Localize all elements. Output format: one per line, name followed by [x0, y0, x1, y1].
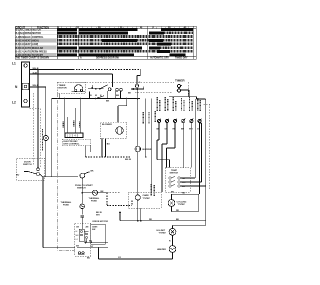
timer motor dashed box: [58, 82, 86, 93]
svg-text:HEATER: HEATER: [157, 248, 166, 251]
timer cam contact row: [88, 85, 122, 91]
junction dots motor wires: [91, 242, 100, 249]
chart dithered row4: [58, 39, 102, 42]
svg-text:BU: BU: [181, 129, 185, 131]
svg-text:BK: BK: [91, 171, 95, 173]
svg-text:WH: WH: [182, 182, 186, 184]
buzzer wires: [126, 99, 138, 195]
motor wire labels: [87, 241, 122, 260]
svg-text:AUTO REGULAR: AUTO REGULAR: [25, 47, 44, 50]
svg-text:DRY CONTROL: DRY CONTROL: [64, 144, 81, 146]
svg-text:WH: WH: [96, 215, 100, 217]
label CARE T'STAT: [143, 194, 151, 200]
label TEMP SWITCH: [170, 170, 179, 175]
label THERMAL FUSE (left): [61, 201, 72, 207]
thermal fuse (motor): [80, 204, 85, 209]
motor centrifugal switch bottom: [78, 252, 85, 255]
door switch contacts: [24, 168, 39, 176]
care t'stat symbol: [135, 195, 140, 200]
chassis dash-dot boundary: [58, 94, 75, 251]
chart dithered row7: [58, 50, 193, 53]
svg-text:FUSE: FUSE: [63, 205, 69, 207]
blower motor dashed box: [100, 122, 126, 138]
label ULTRA CARE (vertical): [151, 184, 154, 196]
label TIMER MOTOR: [59, 85, 68, 90]
wires below control board: [85, 146, 126, 158]
chart bottom note row: [16, 57, 188, 60]
svg-text:BK: BK: [106, 100, 110, 102]
cycle selector drop wires: [157, 99, 206, 194]
svg-text:BU: BU: [16, 175, 20, 177]
temp switch tiny labels: [182, 178, 186, 188]
door switch dashed box: [17, 158, 45, 180]
timer dashed enclosure top edge: [57, 82, 188, 96]
timer chart table frame: [15, 26, 196, 59]
chart dithered row3: [58, 35, 193, 38]
svg-text:T'STAT: T'STAT: [178, 203, 186, 206]
chart row4 bars: [102, 39, 163, 42]
timer selector contact Y: [135, 84, 138, 87]
svg-text:BK: BK: [128, 93, 132, 95]
loop wire labels: [171, 192, 186, 213]
small smudge labels near x96-106 y211-215: [96, 212, 102, 217]
chart dithered row6 tail: [160, 46, 193, 49]
label DOOR SWITCH: [23, 162, 32, 167]
label INTERIOR LIGHT (vertical): [42, 129, 44, 151]
chart dark label-row underlays: [15, 39, 56, 56]
timer switch contact at right (T): [177, 85, 182, 93]
L1 drop wire to door switch: [37, 70, 39, 168]
door switch output wire: [39, 174, 78, 248]
chart dithered row5: [58, 43, 193, 46]
svg-text:TIMER MOTOR: TIMER MOTOR: [25, 30, 42, 32]
interior light lamp: [43, 135, 48, 140]
svg-text:DRIVE MOTOR: DRIVE MOTOR: [25, 33, 42, 35]
svg-text:BK: BK: [101, 191, 105, 193]
svg-text:AUTOMATIC DRY: AUTOMATIC DRY: [150, 57, 169, 60]
interior light wire: [46, 87, 52, 177]
svg-text:T'STAT: T'STAT: [159, 231, 167, 234]
cycle selector vertical labels: [157, 97, 200, 111]
svg-text:L2: L2: [12, 101, 16, 105]
cycle selector contact row: [157, 119, 201, 123]
svg-text:BK: BK: [89, 241, 93, 243]
svg-text:RD: RD: [149, 219, 153, 221]
chart left labels text: [16, 27, 50, 57]
dashed cam line inside timer: [135, 92, 172, 94]
buzzer: [135, 146, 141, 152]
svg-text:PUSH TO START: PUSH TO START: [25, 54, 44, 57]
svg-text:THERMAL: THERMAL: [61, 201, 72, 204]
motor output wires: [77, 242, 173, 259]
P2S down wire: [81, 178, 83, 204]
svg-text:WH: WH: [189, 129, 193, 131]
motor lead connector: [81, 209, 85, 229]
blower feed wire: [118, 99, 152, 193]
svg-text:TIMER: TIMER: [175, 78, 185, 82]
svg-text:OR: OR: [165, 129, 169, 131]
chart header ticks: [62, 26, 189, 29]
wire hi-limit to heater: [172, 235, 174, 245]
junction dots y220.7: [119, 212, 142, 222]
temp switch contacts: [169, 177, 180, 188]
junction blobs below Y: [131, 88, 144, 90]
svg-text:SWITCH: SWITCH: [23, 164, 32, 166]
label CYCLING T'STAT: [177, 202, 187, 207]
motor inner smudge labels: [76, 231, 87, 242]
svg-text:ELEC. CONTROL: ELEC. CONTROL: [25, 37, 44, 39]
drive motor dashed box: [75, 223, 91, 256]
svg-text:1M: 1M: [76, 226, 79, 228]
junction P2S/fuse: [82, 192, 84, 194]
hi-limit t'stat: [169, 228, 176, 235]
junction blob motor out: [85, 241, 87, 243]
ultra care t'stat dashed box: [128, 192, 161, 208]
heater bottom wire: [172, 252, 174, 258]
label PUSH-TO-START SWITCH: [75, 184, 93, 190]
svg-text:THE TIMER CHART IS SHOWN: THE TIMER CHART IS SHOWN: [16, 57, 50, 60]
svg-text:M: M: [95, 95, 97, 97]
push-to-start switch: [80, 172, 90, 178]
svg-text:DRIVE MOTOR: DRIVE MOTOR: [93, 221, 109, 223]
svg-text:DOOR: DOOR: [24, 162, 31, 164]
svg-text:SWITCH: SWITCH: [77, 187, 86, 189]
dashed drop wires from N and L2 terminals: [30, 93, 41, 168]
labels on y220.7: [149, 219, 180, 221]
svg-text:MOTOR: MOTOR: [59, 88, 68, 90]
svg-text:4-43: 4-43: [33, 71, 38, 74]
svg-text:BK: BK: [157, 129, 161, 131]
junction dots on cam row: [91, 87, 100, 89]
wire L1 top bus: [30, 70, 141, 85]
svg-text:RD: RD: [182, 193, 186, 195]
wire drop into timer contacts: [112, 74, 114, 87]
wire y220.7 bus: [120, 200, 206, 228]
selector dashed enclosure edge: [204, 104, 210, 190]
contact letters N M K: [90, 95, 120, 97]
svg-text:TIMED DRY: TIMED DRY: [175, 58, 188, 60]
switch lever on y98.5: [96, 96, 104, 99]
svg-text:BLOWER: BLOWER: [102, 124, 112, 126]
wire from N terminal: [30, 86, 46, 88]
svg-text:5M: 5M: [76, 246, 79, 248]
connector 1 2 3 4 5: [65, 133, 83, 138]
svg-text:PUSH-TO-START: PUSH-TO-START: [75, 184, 93, 187]
svg-text:2M: 2M: [86, 226, 89, 228]
connector pins drop wires: [65, 99, 81, 134]
timer motor symbol: [72, 85, 86, 92]
svg-text:THERMAL: THERMAL: [89, 197, 100, 200]
svg-text:T'STAT: T'STAT: [143, 197, 151, 200]
label THERMAL FUSE: [89, 197, 100, 203]
fuse output wire: [98, 193, 132, 206]
svg-text:BUZZER: BUZZER: [143, 149, 152, 151]
svg-text:AUTO PERM PRESS: AUTO PERM PRESS: [25, 51, 48, 54]
cycling t'stat bypass loop: [172, 194, 199, 211]
svg-text:12345: 12345: [67, 134, 80, 138]
blower output wires: [102, 139, 106, 158]
svg-text:SW.: SW.: [92, 229, 96, 231]
svg-text:1: 1: [85, 233, 86, 235]
chart row separator lines: [15, 31, 57, 53]
svg-text:FUSE: FUSE: [91, 201, 97, 203]
svg-text:BK-W: BK-W: [125, 159, 132, 161]
svg-text:RD: RD: [173, 129, 177, 131]
chart cam bars row8: [58, 54, 186, 57]
wire main horizontal y98.5: [52, 98, 140, 100]
electronic dry control dashed box: [62, 139, 91, 146]
svg-text:BK: BK: [116, 95, 120, 97]
svg-text:HEAT (LOW): HEAT (LOW): [25, 43, 39, 46]
motor inner detail: [79, 229, 89, 242]
motor tiny labels: [76, 226, 98, 247]
motor switch detail rect: [91, 224, 106, 244]
terminal block TB: [22, 62, 30, 107]
svg-text:BK: BK: [176, 219, 180, 221]
svg-text:RD: RD: [176, 210, 180, 212]
temp switch dashed box: [165, 168, 190, 193]
chart cam bars row2: [58, 32, 164, 35]
svg-text:DEPRESS DOOR SW: DEPRESS DOOR SW: [96, 58, 120, 60]
svg-text:HEAT (HIGH): HEAT (HIGH): [25, 40, 39, 43]
blower symbol: [116, 127, 124, 135]
connector pin labels: [63, 121, 79, 129]
chart cam bars row6: [58, 46, 160, 49]
chart dithered row2 tail: [164, 31, 193, 34]
wire from Y junction down: [136, 89, 138, 99]
junction dots mid verticals: [126, 98, 147, 158]
svg-text:L1: L1: [12, 62, 16, 66]
wire from T contact: [169, 90, 206, 221]
heater: [169, 246, 176, 253]
svg-text:BK: BK: [171, 192, 175, 194]
chart cam bars row1: [58, 28, 193, 31]
svg-text:BU: BU: [107, 144, 111, 146]
cycle selector wire colour labels: [157, 129, 201, 131]
cycling t'stat: [168, 200, 175, 207]
thermal fuse (blower): [92, 190, 97, 195]
chart header number scale: [58, 26, 187, 29]
junction dots y98.5: [64, 98, 138, 100]
label HI-LIMIT T'STAT: [157, 230, 167, 235]
svg-text:BU: BU: [87, 257, 91, 259]
cam contact drop wires: [59, 91, 120, 99]
vertical wire labels: [143, 111, 155, 124]
svg-text:CARE: CARE: [143, 194, 150, 197]
wire neutral bus: [30, 73, 113, 75]
svg-text:SWITCH: SWITCH: [170, 172, 179, 174]
